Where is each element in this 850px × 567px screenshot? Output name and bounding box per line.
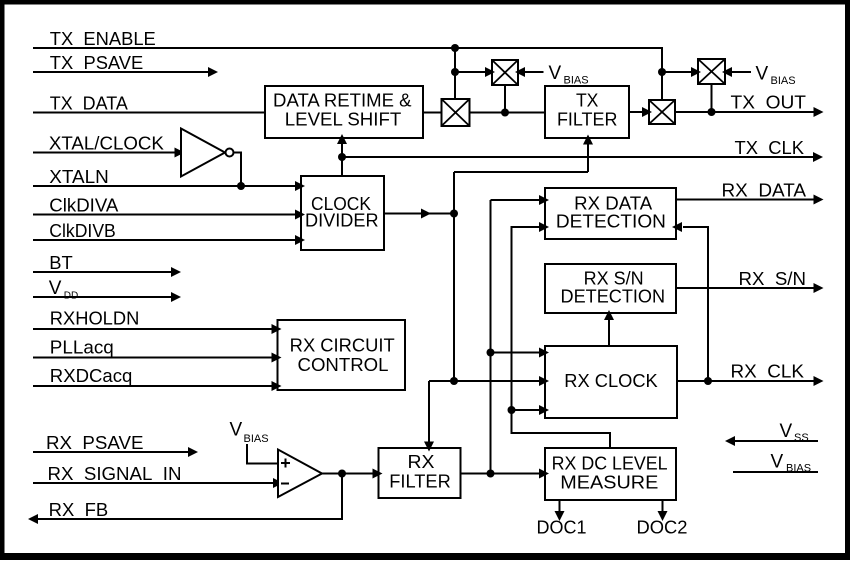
svg-text:RX: RX bbox=[408, 452, 435, 472]
wire clock vertical bus bbox=[453, 172, 455, 381]
block RX CIRCUIT CONTROL bbox=[278, 320, 406, 390]
svg-text:RX CLK: RX CLK bbox=[731, 362, 805, 382]
svg-text:RX S/N: RX S/N bbox=[584, 269, 644, 289]
wire TX CLK bbox=[342, 156, 814, 158]
wire CLOCK DIVIDER to DATA RETIME bbox=[341, 140, 343, 176]
wire RX DATA output bbox=[676, 199, 814, 201]
wire inverter output bbox=[234, 153, 242, 187]
wire TX OUT bbox=[675, 111, 814, 113]
svg-text:RX CIRCUIT: RX CIRCUIT bbox=[290, 336, 395, 356]
node TX ENABLE right junction bbox=[658, 68, 666, 76]
wire M3 to TX OUT line bbox=[711, 84, 713, 112]
svg-text:RX CLOCK: RX CLOCK bbox=[564, 371, 658, 391]
svg-text:DIVIDER: DIVIDER bbox=[305, 211, 379, 231]
wire RX PSAVE bbox=[33, 451, 189, 453]
svg-text:DOC2: DOC2 bbox=[637, 518, 688, 538]
wire clock to RX FILTER / RX CLOCK bbox=[450, 377, 458, 385]
wire RX DC measure bus to RX DATA DET / RX CLOCK bbox=[512, 227, 611, 448]
mixer M3 (TX out bias) bbox=[698, 59, 725, 84]
block TX FILTER bbox=[545, 86, 629, 138]
wire RXDCacq bbox=[33, 385, 273, 387]
wire VBIAS to op-amp + input bbox=[247, 444, 278, 464]
svg-text:TX DATA: TX DATA bbox=[50, 93, 128, 113]
wire TX ENABLE branch to M1/M2 bbox=[454, 48, 456, 99]
svg-text:RX DATA: RX DATA bbox=[574, 194, 652, 214]
svg-text:RX S/N: RX S/N bbox=[739, 269, 807, 289]
mixer M4 (TX out path) bbox=[649, 100, 675, 124]
svg-text:RX FB: RX FB bbox=[49, 500, 108, 520]
svg-text:BIAS: BIAS bbox=[771, 75, 796, 87]
wire RX S/N output bbox=[676, 287, 814, 289]
block RX S/N DETECTION bbox=[545, 264, 676, 313]
node TX CLK junction bbox=[338, 153, 346, 161]
wire RXHOLDN bbox=[33, 328, 273, 330]
wire VSS bbox=[729, 440, 818, 442]
svg-text:TX CLK: TX CLK bbox=[735, 138, 805, 158]
mixer M2 (TX data path) bbox=[442, 99, 470, 126]
svg-text:V: V bbox=[49, 278, 62, 299]
svg-text:RXDCacq: RXDCacq bbox=[50, 366, 133, 386]
svg-text:XTAL/CLOCK: XTAL/CLOCK bbox=[49, 133, 164, 153]
svg-text:TX: TX bbox=[576, 91, 599, 111]
wire RX FB bbox=[37, 474, 342, 520]
wire XTAL/CLOCK bbox=[33, 152, 175, 154]
wire RX SIGNAL IN bbox=[33, 482, 274, 484]
svg-text:TX OUT: TX OUT bbox=[731, 93, 807, 113]
svg-text:BIAS: BIAS bbox=[564, 75, 589, 87]
svg-text:DATA RETIME &: DATA RETIME & bbox=[273, 90, 412, 110]
svg-text:SS: SS bbox=[794, 432, 809, 444]
wire RX CLK feedback into RX DATA DET bbox=[683, 227, 708, 381]
wire BT bbox=[33, 271, 172, 273]
svg-text:MEASURE: MEASURE bbox=[560, 473, 658, 493]
wire TX ENABLE bbox=[33, 48, 662, 100]
svg-text:BT: BT bbox=[49, 253, 73, 273]
wire DOC1 bbox=[559, 500, 561, 515]
svg-text:DOC1: DOC1 bbox=[537, 518, 587, 538]
wire VDD bbox=[33, 296, 172, 298]
wire DOC2 bbox=[662, 500, 664, 515]
wire M1 to TX data line bbox=[504, 85, 506, 113]
wire VBIAS stub at M3 bbox=[725, 71, 751, 73]
svg-text:TX PSAVE: TX PSAVE bbox=[50, 53, 143, 73]
wire VBIAS stub at M1 bbox=[518, 71, 544, 73]
wire op-amp output to RX FILTER bbox=[322, 473, 374, 475]
inverter U1 bbox=[181, 129, 225, 177]
svg-text:RX DATA: RX DATA bbox=[722, 181, 807, 201]
svg-text:V: V bbox=[771, 452, 784, 473]
svg-text:V: V bbox=[230, 420, 243, 441]
node inverter/XTALN junction bbox=[237, 182, 245, 190]
svg-text:LEVEL SHIFT: LEVEL SHIFT bbox=[285, 110, 402, 130]
wire clock feed to TX FILTER bbox=[454, 171, 588, 173]
svg-text:BIAS: BIAS bbox=[786, 463, 811, 475]
wire PLLacq bbox=[33, 357, 273, 359]
svg-text:TX ENABLE: TX ENABLE bbox=[50, 29, 156, 49]
svg-text:RX SIGNAL IN: RX SIGNAL IN bbox=[48, 464, 182, 484]
svg-text:BIAS: BIAS bbox=[244, 433, 269, 445]
wire TX PSAVE bbox=[33, 71, 208, 73]
wire TX DATA bbox=[33, 112, 265, 114]
wire TX FILTER to M4 bbox=[629, 111, 644, 113]
wire VBIAS (bottom right) bbox=[733, 471, 818, 473]
svg-text:XTALN: XTALN bbox=[49, 167, 108, 187]
svg-text:ClkDIVA: ClkDIVA bbox=[49, 195, 118, 215]
block CLOCK DIVIDER bbox=[301, 176, 384, 250]
mixer M1 (TX bias upper-left) bbox=[492, 60, 518, 85]
wire into mixer M3 bbox=[662, 71, 693, 73]
svg-text:FILTER: FILTER bbox=[389, 472, 451, 492]
block RX FILTER bbox=[379, 448, 461, 498]
wire CLOCK DIVIDER output bbox=[384, 213, 454, 215]
wire XTALN bbox=[33, 185, 296, 187]
svg-text:CONTROL: CONTROL bbox=[298, 355, 389, 375]
wire RX FILTER to RX DC LEVEL MEASURE bbox=[461, 473, 542, 475]
block RX DC LEVEL MEASURE bbox=[545, 448, 676, 500]
wire ClkDIVA bbox=[33, 214, 296, 216]
wire RX CLK output bbox=[677, 380, 814, 382]
svg-text:ClkDIVB: ClkDIVB bbox=[49, 221, 116, 241]
svg-text:DETECTION: DETECTION bbox=[561, 287, 666, 307]
svg-text:DD: DD bbox=[64, 291, 78, 302]
svg-text:DETECTION: DETECTION bbox=[556, 212, 666, 232]
svg-text:PLLacq: PLLacq bbox=[50, 338, 114, 358]
svg-text:V: V bbox=[549, 63, 562, 84]
wire ClkDIVB bbox=[33, 239, 296, 241]
wire DATA RETIME to M2 bbox=[423, 112, 442, 114]
svg-text:V: V bbox=[756, 64, 769, 85]
svg-text:RX PSAVE: RX PSAVE bbox=[46, 433, 144, 453]
svg-text:RX DC LEVEL: RX DC LEVEL bbox=[552, 453, 668, 473]
block DATA RETIME & LEVEL SHIFT bbox=[265, 86, 423, 138]
svg-text:V: V bbox=[780, 421, 793, 442]
svg-text:RXHOLDN: RXHOLDN bbox=[50, 309, 140, 329]
op-amp U2 bbox=[278, 450, 322, 498]
wire into mixer M1 bbox=[455, 71, 487, 73]
block RX DATA DETECTION bbox=[545, 188, 676, 239]
wire M2 to TX FILTER bbox=[470, 112, 546, 114]
wire RX CLOCK to RX S/N DET bbox=[608, 316, 610, 346]
block RX CLOCK bbox=[545, 346, 677, 418]
svg-text:FILTER: FILTER bbox=[557, 110, 618, 130]
wire RX FILTER out bus to RX DATA DET / RX CLOCK bbox=[490, 200, 492, 474]
